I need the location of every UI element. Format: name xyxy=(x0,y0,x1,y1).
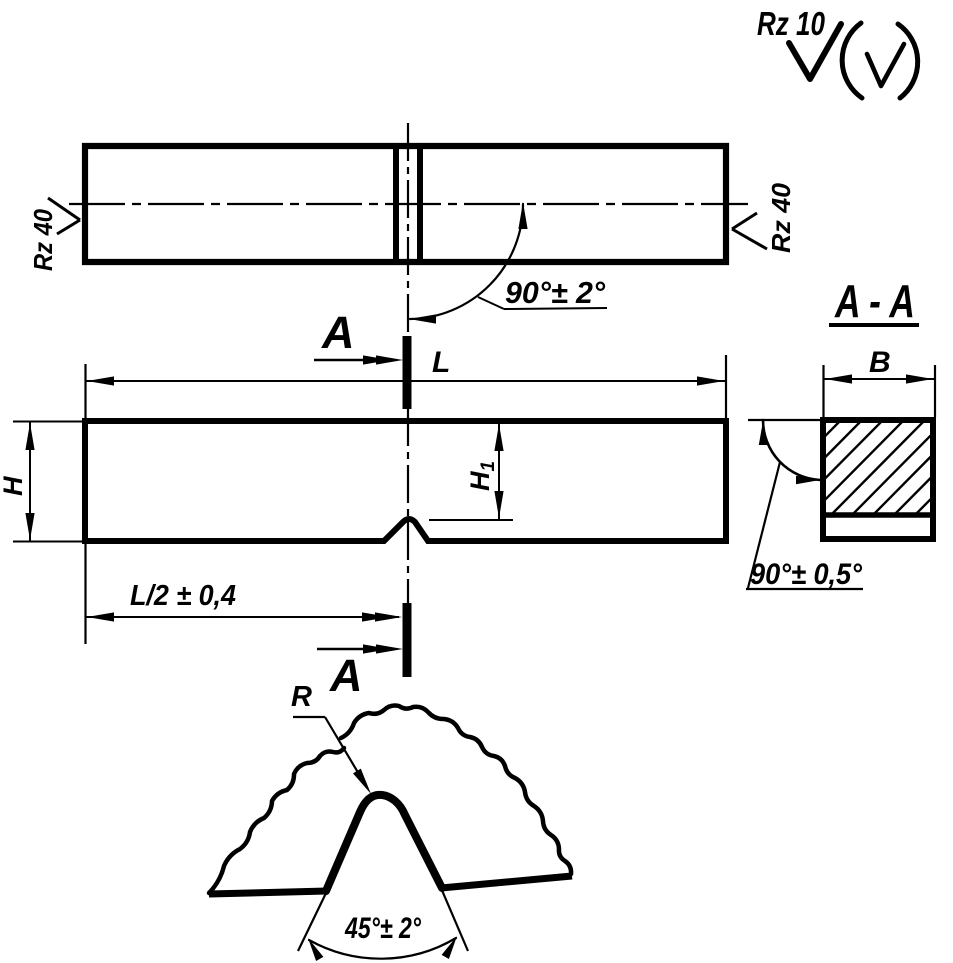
svg-text:L/2 ± 0,4: L/2 ± 0,4 xyxy=(130,580,236,612)
svg-text:L: L xyxy=(432,346,450,379)
svg-text:A - A: A - A xyxy=(834,275,915,327)
svg-text:H: H xyxy=(0,476,28,496)
svg-text:90°± 2°: 90°± 2° xyxy=(505,275,606,310)
svg-text:Rz 10: Rz 10 xyxy=(757,5,826,42)
svg-text:R: R xyxy=(291,681,312,713)
svg-text:B: B xyxy=(869,346,891,379)
svg-text:45°± 2°: 45°± 2° xyxy=(344,912,422,945)
svg-text:A: A xyxy=(321,307,355,358)
svg-text:A: A xyxy=(329,650,363,701)
svg-text:90°± 0,5°: 90°± 0,5° xyxy=(750,558,863,591)
svg-text:Rz 40: Rz 40 xyxy=(28,209,58,271)
svg-text:Rz 40: Rz 40 xyxy=(766,182,796,253)
